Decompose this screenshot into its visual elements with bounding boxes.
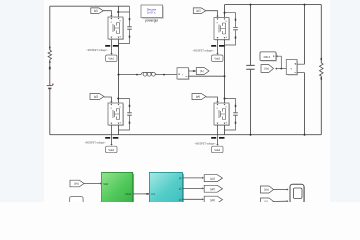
svg-text:[Vo]: [Vo] (74, 183, 79, 186)
wire: pwm out 1 (183, 177, 205, 179)
goto tag [Vo] (measure) (261, 65, 274, 73)
goto tag [g2] bottom (204, 185, 222, 192)
svg-text:[g2]: [g2] (196, 10, 200, 13)
wire: Q4 measurement output (216, 125, 218, 146)
right scroll margin (330, 0, 360, 202)
svg-text:[g1]: [g1] (94, 10, 98, 13)
wire: g3 gate wire (104, 97, 113, 103)
from tag [g3] (90, 94, 104, 100)
svg-text:[g3]: [g3] (210, 198, 215, 202)
from tag [Vo] scope (260, 186, 273, 193)
wire: display feed (276, 55, 281, 69)
scope block (290, 184, 305, 204)
wire: vmeas output junction (275, 68, 286, 70)
signal label Q1 (86, 49, 108, 52)
from tag [g2] (193, 8, 206, 14)
from tag [g4] (192, 94, 206, 100)
svg-text:[g1]: [g1] (210, 176, 215, 180)
demux Q3 (105, 137, 118, 139)
wire: right leg midpoint (224, 40, 226, 104)
wire: V1 minus to rail (297, 72, 305, 74)
left scroll margin (0, 0, 44, 202)
wire: g2 gate wire (206, 11, 219, 18)
svg-text:Vds4: Vds4 (214, 149, 220, 152)
wire: Q2 drain stub (224, 5, 226, 18)
signal label Q4 (194, 143, 216, 146)
controller subsystem (green) (102, 172, 135, 203)
svg-text:<MOSFET voltage>: <MOSFET voltage> (84, 142, 106, 145)
snubber RC Q1 (117, 6, 132, 43)
wire: left source branch (upper) (49, 6, 51, 50)
load resistor R1 branch (320, 5, 324, 135)
wire: bridge output left (119, 74, 142, 76)
wire: Vo to controller (84, 182, 102, 184)
wire: ammeter to right midpoint (189, 75, 226, 77)
svg-text:g: g (217, 22, 218, 24)
powergui block (141, 5, 164, 23)
goto tag [IL] (196, 68, 209, 75)
svg-text:g: g (111, 107, 112, 109)
svg-text:<MOSFET voltage>: <MOSFET voltage> (194, 143, 216, 146)
svg-text:In1: In1 (151, 192, 155, 196)
wire: Q3 measurement output (110, 125, 112, 146)
wire: measurement rail (304, 4, 306, 136)
wire: Q3 source to bus (118, 125, 120, 135)
demux Q2 (211, 45, 224, 47)
display block (260, 52, 277, 62)
MOSFET Q1 block (108, 17, 124, 40)
goto tag [g3] bottom (204, 196, 222, 203)
from tag [IL] scope (260, 198, 273, 205)
MOSFET Q3 block (108, 103, 124, 126)
svg-text:Out1: Out1 (125, 192, 131, 196)
svg-text:[Vo]: [Vo] (264, 68, 269, 71)
svg-text:[IL]: [IL] (265, 201, 269, 202)
from tag [g1] (91, 8, 104, 14)
svg-text:[IL]: [IL] (200, 70, 204, 73)
wire: pwm out 2 (183, 187, 205, 189)
goto tag Vds1 (106, 55, 118, 62)
inductor L1 (141, 72, 156, 76)
goto tag Vds4 (212, 146, 224, 153)
wire: inductor to ammeter (156, 74, 177, 76)
from tag [Vo] (controller input) (70, 180, 84, 187)
DC voltage source Vdc (47, 84, 54, 91)
current measurement I1 block (177, 68, 190, 80)
wire: pwm out 3 (183, 198, 205, 200)
node: left midpoint (118, 74, 138, 76)
MOSFET Q2 block (214, 18, 230, 41)
wire: Vo to scope (274, 188, 289, 190)
goto tag Vds3 (106, 146, 118, 153)
wire: g1 gate wire (103, 11, 112, 17)
snubber RC Q4 (224, 98, 238, 131)
signal label Q2 (192, 50, 214, 53)
demux Q4 (211, 137, 224, 139)
svg-text:<MOSFET voltage>: <MOSFET voltage> (192, 50, 214, 53)
signal label Q3 (84, 142, 106, 145)
svg-text:[g2]: [g2] (210, 187, 215, 191)
svg-text:Vds2: Vds2 (214, 58, 220, 61)
wire: Q1 measurement output (110, 39, 112, 55)
wire: Q1 drain stub (118, 6, 120, 17)
svg-text:230.4: 230.4 (264, 55, 271, 59)
pwm subsystem (cyan) (149, 172, 184, 203)
MOSFET Q4 block (214, 103, 230, 126)
goto tag Vds2 (212, 55, 224, 62)
resistor Rin zigzag (48, 47, 51, 63)
wire: V1 plus to rail (297, 63, 305, 65)
snubber RC Q3 (117, 98, 132, 131)
voltage measurement V1 block (286, 60, 298, 76)
svg-text:g: g (217, 107, 218, 109)
goto tag (cut off bottom-left) (70, 197, 84, 204)
svg-text:Vds1: Vds1 (108, 58, 114, 61)
svg-text:1e-07 s.: 1e-07 s. (147, 11, 157, 15)
DC link capacitor C1 branch (246, 4, 254, 136)
svg-text:Vref: Vref (103, 182, 108, 186)
wire: g4 gate wire (206, 97, 219, 103)
goto tag [g1] bottom (204, 175, 222, 182)
snubber RC Q2 (224, 12, 238, 45)
svg-text:g: g (111, 21, 112, 23)
wire: top-right DC bus (225, 4, 322, 6)
wire: IL to scope (274, 200, 289, 202)
wire: left source branch (middle) (49, 60, 51, 135)
wire: left leg midpoint (118, 39, 120, 103)
wire: top-left DC bus (50, 5, 130, 7)
wire: Q2 measurement output (216, 40, 218, 55)
wire: bottom DC bus (50, 134, 322, 136)
wire: controller to pwm (133, 193, 150, 195)
svg-text:Vds3: Vds3 (108, 149, 114, 152)
wire: ammeter signal to goto IL (189, 70, 197, 72)
svg-text:powergui: powergui (145, 19, 158, 23)
svg-text:<MOSFET voltage>: <MOSFET voltage> (86, 49, 108, 52)
svg-text:[g3]: [g3] (94, 96, 98, 99)
demux Q1 (105, 45, 118, 47)
svg-text:[Vo]: [Vo] (264, 189, 269, 192)
wire: Q4 source to bus (224, 125, 226, 135)
svg-text:[g4]: [g4] (196, 96, 200, 99)
